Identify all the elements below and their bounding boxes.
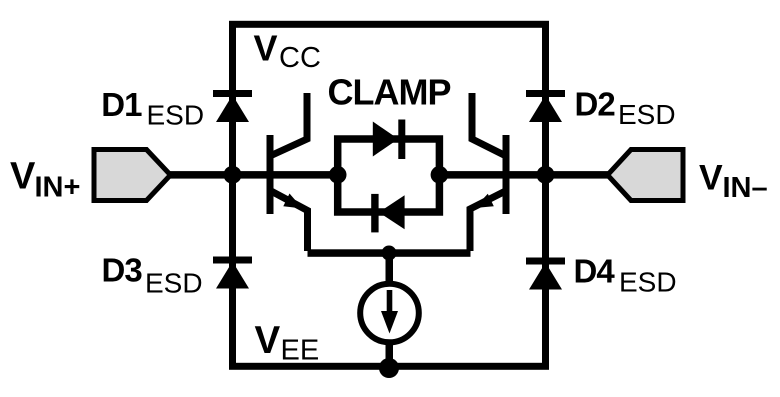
svg-text:V: V bbox=[255, 319, 281, 362]
node VEE rail / current source bbox=[379, 358, 399, 378]
supply rail box (VCC top / VEE bottom) bbox=[233, 24, 546, 366]
label VIN- bbox=[699, 158, 768, 205]
label D2 ESD bbox=[575, 86, 676, 131]
diode D1 ESD (input+ to VCC) bbox=[213, 90, 252, 122]
clamp diode top (points right) bbox=[373, 120, 406, 160]
wire right clamp node to VIN- input bbox=[439, 171, 610, 179]
label D1 ESD bbox=[101, 86, 204, 131]
svg-text:ESD: ESD bbox=[147, 100, 205, 131]
svg-text:V: V bbox=[699, 158, 723, 198]
svg-text:D1: D1 bbox=[101, 86, 142, 123]
label D4 ESD bbox=[574, 253, 677, 298]
svg-text:ESD: ESD bbox=[619, 267, 677, 298]
input pad VIN- bbox=[608, 150, 684, 201]
current source I1 bbox=[360, 284, 419, 343]
wire emitters to current source node bbox=[308, 249, 471, 256]
clamp diode bottom (points left) bbox=[371, 194, 404, 233]
node emitters / current source bbox=[382, 246, 397, 261]
svg-text:CLAMP: CLAMP bbox=[328, 72, 451, 113]
svg-text:ESD: ESD bbox=[618, 99, 676, 130]
label VEE bbox=[255, 319, 320, 367]
label VIN+ bbox=[10, 156, 80, 204]
svg-text:D2: D2 bbox=[575, 86, 616, 123]
diode D4 ESD (VEE to input-) bbox=[526, 258, 565, 290]
svg-text:V: V bbox=[254, 27, 278, 68]
svg-text:ESD: ESD bbox=[145, 268, 203, 299]
diode D2 ESD (input- to VCC) bbox=[526, 90, 565, 122]
svg-text:D3: D3 bbox=[102, 252, 143, 289]
svg-text:V: V bbox=[10, 156, 36, 198]
node right clamp / base Q2 bbox=[431, 166, 449, 184]
node VIN+ / left rail junction bbox=[224, 166, 242, 184]
wire VIN+ input to left clamp node bbox=[167, 171, 338, 179]
wire current source bottom lead to VEE rail bbox=[386, 340, 394, 367]
diode D3 ESD (VEE to input+) bbox=[213, 257, 252, 289]
label D3 ESD bbox=[102, 252, 203, 299]
input pad VIN+ bbox=[94, 150, 171, 201]
node VIN- / right rail junction bbox=[537, 166, 555, 184]
transistor Q1 (left NPN) bbox=[267, 93, 308, 251]
wire current source top lead bbox=[386, 253, 394, 285]
svg-text:IN–: IN– bbox=[723, 172, 768, 204]
label VCC bbox=[254, 27, 321, 74]
clamp loop wiring bbox=[338, 139, 440, 212]
svg-text:D4: D4 bbox=[574, 253, 616, 290]
transistor Q2 (right NPN) bbox=[470, 93, 510, 251]
svg-text:EE: EE bbox=[281, 335, 320, 367]
svg-text:IN+: IN+ bbox=[35, 172, 81, 204]
node left clamp / base Q1 bbox=[329, 166, 347, 184]
svg-text:CC: CC bbox=[279, 42, 321, 74]
